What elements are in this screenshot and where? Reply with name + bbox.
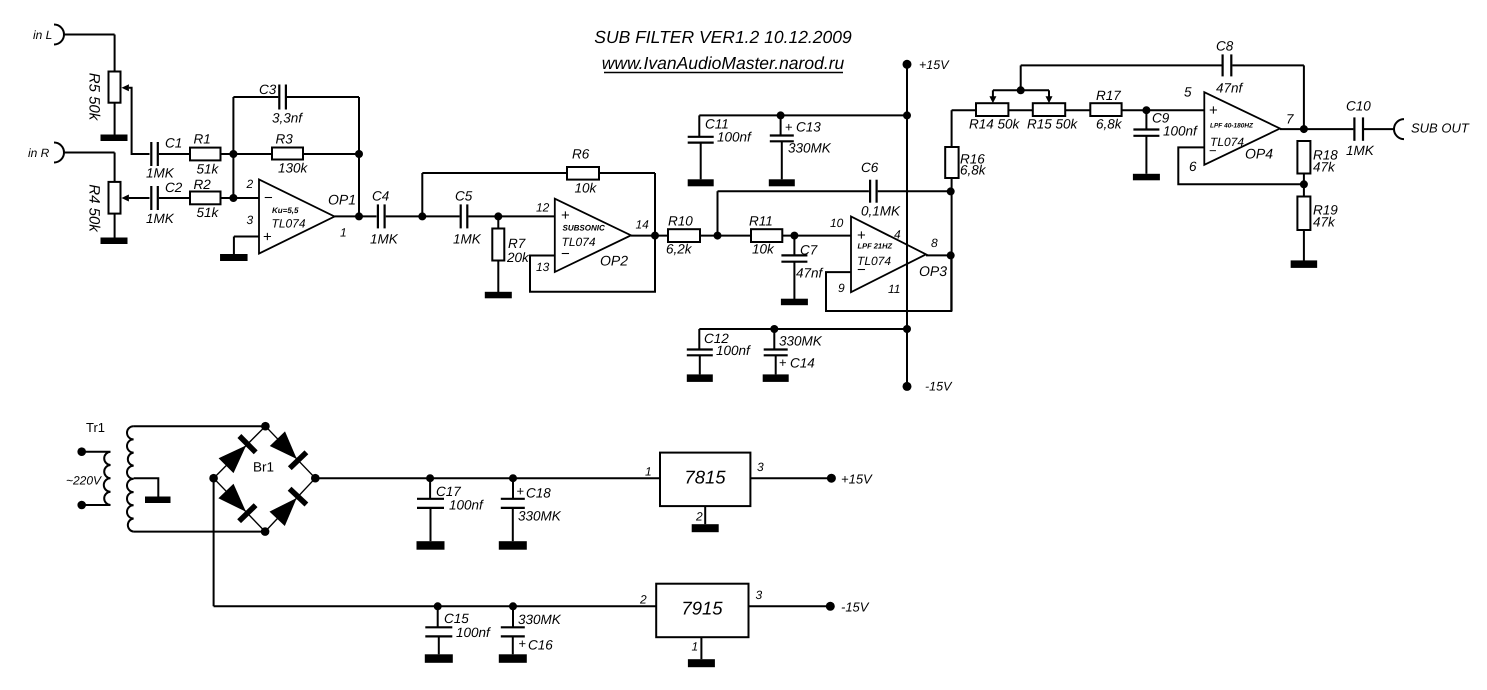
wire OP2 pin13 feedback loop [530, 236, 655, 292]
svg-text:1MK: 1MK [1346, 143, 1375, 158]
svg-text:OP3: OP3 [919, 263, 947, 279]
svg-text:C1: C1 [165, 136, 182, 151]
svg-text:330MK: 330MK [779, 334, 823, 349]
wire C18 to ground [512, 508, 514, 541]
capacitor C9 100nf [1133, 110, 1198, 138]
ground [101, 238, 128, 245]
svg-text:4: 4 [894, 228, 901, 242]
capacitor C2 1MK [146, 180, 183, 226]
wire C6 to R16 node [878, 190, 951, 192]
svg-text:3: 3 [756, 588, 763, 602]
wire R6 to OP2 out [599, 173, 655, 236]
wire C7 to ground [793, 262, 795, 299]
wire top cap rail [699, 114, 907, 116]
wire C15 to ground [438, 636, 440, 654]
svg-text:−: − [1209, 143, 1217, 158]
resistor R10 6,2k [666, 214, 700, 257]
ground [1133, 174, 1160, 181]
node C16 junction [509, 602, 517, 610]
wire C8 to OP4 output [1232, 65, 1304, 129]
svg-text:100nf: 100nf [456, 625, 491, 640]
regulator 7815 [645, 453, 764, 524]
wire R19 to ground [1303, 230, 1305, 261]
svg-text:+: + [779, 355, 787, 370]
node R1 out junction [229, 150, 237, 158]
wire OP2 output [631, 235, 668, 237]
svg-text:7815: 7815 [684, 467, 726, 488]
bridge rectifier Br1 [209, 422, 319, 536]
svg-text:R7: R7 [508, 236, 526, 251]
wire to C8 [1021, 64, 1222, 66]
svg-text:12: 12 [536, 201, 550, 215]
capacitor C17 100nf [417, 478, 484, 512]
resistor R16 6,8k [945, 110, 987, 178]
wire bridge plus to 7815 rail [315, 477, 660, 479]
node R18-R19 junction [1300, 180, 1308, 188]
op-amp OP3 TL074 [830, 216, 947, 296]
wire OP4 output to C10 [1280, 128, 1353, 130]
node C9 junction [1142, 106, 1150, 114]
svg-text:C7: C7 [800, 243, 818, 258]
resistor R6 10k [567, 147, 599, 196]
svg-text:7915: 7915 [681, 598, 723, 619]
svg-text:11: 11 [888, 282, 900, 296]
ground [145, 497, 171, 504]
input jack in L [33, 25, 64, 45]
svg-text:330MK: 330MK [788, 141, 832, 156]
potentiometer R5 50k [86, 72, 121, 122]
url text underlined [602, 53, 845, 73]
capacitor C10 1MK [1346, 99, 1375, 159]
wire secondary bottom to bridge [134, 531, 266, 533]
output jack SUB OUT [1394, 119, 1470, 139]
svg-text:R1: R1 [194, 132, 211, 147]
svg-text:330MK: 330MK [518, 509, 562, 524]
ground [781, 299, 808, 306]
wire OP4 pin6 feedback loop [1178, 147, 1304, 184]
svg-text:R10: R10 [668, 214, 693, 229]
svg-text:+: + [785, 120, 793, 135]
capacitor C13 330MK electrolytic [770, 115, 832, 155]
svg-text:6,2k: 6,2k [666, 242, 693, 257]
svg-text:9: 9 [838, 281, 845, 295]
svg-text:2: 2 [246, 177, 254, 191]
ground [101, 135, 128, 142]
node C17 junction [426, 474, 434, 482]
svg-text:1: 1 [692, 640, 699, 654]
wire junction up to C6 [718, 191, 869, 235]
wire R4 to ground [114, 214, 116, 238]
svg-text:3: 3 [247, 213, 254, 227]
wire bottom cap rail [699, 328, 907, 330]
capacitor C15 100nf [425, 606, 491, 640]
svg-text:C3: C3 [259, 82, 277, 97]
wire secondary top to bridge [134, 425, 266, 427]
svg-text:47nf: 47nf [796, 266, 824, 281]
node R10-R11 junction [714, 232, 722, 240]
svg-text:C16: C16 [528, 638, 553, 653]
svg-text:+: + [1209, 102, 1218, 119]
svg-text:10k: 10k [575, 181, 598, 196]
svg-text:47k: 47k [1313, 160, 1336, 175]
svg-text:~220V: ~220V [66, 474, 102, 488]
input jack in R [28, 143, 64, 163]
capacitor C5 1MK [453, 189, 482, 247]
capacitor C18 330MK electrolytic [501, 478, 562, 523]
node C18 junction [509, 474, 517, 482]
svg-text:100nf: 100nf [716, 343, 751, 358]
node OP2 output junction [651, 232, 659, 240]
svg-text:R2: R2 [194, 177, 212, 192]
ground [425, 654, 453, 663]
svg-text:LPF 40-180HZ: LPF 40-180HZ [1210, 123, 1254, 130]
svg-text:LPF 21HZ: LPF 21HZ [858, 242, 893, 251]
svg-text:330MK: 330MK [518, 612, 562, 627]
wire C5 to OP2 pin 12 [468, 215, 554, 217]
svg-text:2: 2 [695, 510, 703, 524]
svg-text:6,8k: 6,8k [1096, 117, 1123, 132]
wire 7915 pin1 to ground [700, 637, 702, 659]
wire C2 to R2 [159, 197, 190, 199]
wire C12 to ground [699, 355, 701, 374]
svg-text:R6: R6 [572, 147, 590, 162]
svg-text:47nf: 47nf [1216, 81, 1244, 96]
capacitor C8 47nf [1216, 39, 1244, 96]
svg-text:-15V: -15V [841, 600, 870, 615]
ground [688, 179, 714, 186]
svg-text:10: 10 [830, 216, 844, 230]
resistor R17 6,8k [1090, 88, 1122, 132]
wire C4 to C5 [386, 215, 460, 217]
svg-text:1MK: 1MK [146, 211, 175, 226]
op-amp OP1 TL074 [246, 177, 357, 254]
node R11-C7 junction [790, 232, 798, 240]
svg-text:in L: in L [33, 28, 52, 42]
ground [687, 374, 713, 382]
svg-text:8: 8 [931, 236, 938, 250]
wire bridge minus to 7915 rail [214, 478, 657, 606]
capacitor C1 1MK [146, 136, 182, 181]
svg-text:C5: C5 [455, 189, 473, 204]
resistor R1 51k [190, 132, 221, 177]
svg-text:OP4: OP4 [1245, 146, 1273, 162]
regulator 7915 [639, 584, 763, 654]
wire +-15V rail vertical [906, 64, 908, 386]
wire C10 to output jack [1364, 128, 1394, 130]
svg-text:1: 1 [340, 226, 347, 240]
wire C14 to ground [775, 355, 777, 374]
wire C3 top [233, 96, 359, 98]
svg-text:C14: C14 [790, 356, 815, 371]
wire center tap [134, 478, 159, 496]
svg-text:0,1MK: 0,1MK [861, 204, 901, 219]
node C15 junction [434, 602, 442, 610]
node R3 right junction [355, 150, 363, 158]
svg-text:OP2: OP2 [600, 253, 628, 269]
wire R5 wiper to C1 [122, 84, 150, 154]
svg-text:TL074: TL074 [857, 254, 891, 268]
svg-text:100nf: 100nf [449, 498, 484, 513]
svg-text:R4 50k: R4 50k [86, 184, 103, 233]
node R2 out junction [229, 194, 237, 202]
wire in L to R5 [64, 35, 115, 72]
svg-text:6: 6 [1189, 159, 1197, 174]
node C13 junction [777, 111, 785, 119]
svg-text:3: 3 [757, 460, 764, 474]
node rail junction [903, 111, 911, 119]
wire 7815 pin2 to ground [704, 506, 706, 524]
node C14 junction [770, 325, 778, 333]
resistor R3 130k [272, 132, 309, 176]
potentiometer R4 50k [86, 182, 121, 233]
svg-text:SUBSONIC: SUBSONIC [563, 224, 605, 233]
capacitor C7 47nf [781, 236, 823, 281]
wire feedback vertical right [358, 97, 360, 216]
capacitor C3 3,3nf [259, 82, 303, 126]
svg-text:+: + [517, 484, 525, 499]
capacitor C16 330MK electrolytic [501, 606, 562, 652]
node rail junction [903, 325, 911, 333]
wire C11 to ground [700, 143, 702, 180]
svg-text:1: 1 [645, 465, 652, 479]
svg-text:20k: 20k [506, 250, 530, 265]
ground [220, 254, 248, 261]
wire R1 to R3 node [221, 153, 273, 155]
svg-text:R15 50k: R15 50k [1027, 117, 1079, 132]
svg-text:C10: C10 [1346, 99, 1371, 114]
wire feedback vertical left [232, 97, 234, 198]
svg-text:-15V: -15V [925, 380, 953, 394]
capacitor C11 100nf [688, 115, 752, 144]
svg-text:51k: 51k [197, 162, 220, 177]
wire R15 to R17 [1065, 109, 1090, 111]
svg-text:SUB OUT: SUB OUT [1411, 121, 1470, 136]
wire R16 down to OP3 loop [951, 178, 953, 311]
svg-text:14: 14 [636, 218, 650, 232]
svg-text:47k: 47k [1313, 215, 1336, 230]
svg-text:R5 50k: R5 50k [86, 73, 103, 122]
svg-text:C18: C18 [526, 486, 551, 501]
wire R10 to R11 [700, 235, 751, 237]
node C6 junction [947, 187, 955, 195]
transformer Tr1 [66, 420, 134, 532]
resistor R11 10k [749, 214, 782, 257]
resistor R18 47k [1297, 141, 1338, 175]
svg-text:51k: 51k [197, 205, 220, 220]
wire R11 to OP3 pin 10 [782, 235, 851, 237]
wire R17 to OP4 pin 5 [1122, 109, 1205, 111]
ground [769, 179, 795, 186]
ground [763, 374, 789, 382]
wire OP3 output [926, 254, 951, 256]
svg-text:Br1: Br1 [253, 460, 274, 475]
wire R5 to ground [114, 103, 116, 135]
wire C16 to ground [512, 636, 514, 654]
wire in R to R4 [64, 153, 115, 182]
wire OP1 pin 3 to ground [234, 237, 259, 255]
svg-text:in R: in R [28, 146, 50, 160]
op-amp OP2 TL074 [536, 199, 649, 274]
ground [485, 292, 512, 299]
svg-text:C13: C13 [796, 120, 821, 135]
svg-text:Ku=5,5: Ku=5,5 [272, 206, 299, 215]
svg-text:2: 2 [639, 593, 647, 607]
title text [594, 27, 852, 47]
ground [499, 654, 527, 663]
wire OP1 output [335, 215, 377, 217]
resistor R7 20k [492, 216, 530, 265]
node OP1 output junction [355, 212, 363, 220]
wire R4 wiper to C2 [122, 195, 150, 202]
wire to R6 [422, 173, 567, 216]
svg-text:R14 50k: R14 50k [969, 117, 1021, 132]
svg-text:R3: R3 [276, 132, 294, 147]
ground [417, 541, 445, 550]
svg-text:C8: C8 [1216, 39, 1234, 54]
wire wiper net [993, 65, 1049, 90]
svg-text:C4: C4 [372, 189, 389, 204]
wire to R14 [952, 109, 976, 111]
svg-text:+: + [561, 207, 570, 224]
node OP3 output junction [947, 251, 955, 259]
potentiometer R14 50k [969, 90, 1021, 131]
capacitor C4 1MK [370, 189, 399, 247]
svg-text:TL074: TL074 [562, 235, 596, 249]
capacitor C6 0,1MK [861, 160, 901, 219]
potentiometer R15 50k [1027, 90, 1079, 131]
wire R3 to right vertical [303, 153, 359, 155]
op-amp OP4 TL074 [1184, 85, 1294, 175]
svg-text:100nf: 100nf [1163, 124, 1198, 139]
node C5 out junction [494, 212, 502, 220]
svg-text:SUB FILTER VER1.2 10.12.2009: SUB FILTER VER1.2 10.12.2009 [594, 27, 852, 47]
svg-text:5: 5 [1184, 85, 1192, 100]
svg-text:TL074: TL074 [272, 217, 306, 231]
svg-text:www.IvanAudioMaster.narod.ru: www.IvanAudioMaster.narod.ru [602, 53, 845, 73]
node C4-C5 junction [418, 212, 426, 220]
capacitor C12 100nf [687, 329, 751, 358]
wire C13 to ground [781, 141, 783, 179]
svg-text:R17: R17 [1096, 88, 1121, 103]
node -15V output terminal [826, 600, 870, 615]
svg-text:C15: C15 [444, 611, 469, 626]
node OP4 output junction [1300, 125, 1308, 133]
wire 7815 out [750, 477, 831, 479]
svg-text:1MK: 1MK [370, 232, 399, 247]
svg-text:+: + [263, 229, 272, 246]
ground [1291, 260, 1318, 268]
svg-text:130k: 130k [278, 161, 309, 176]
wire R7 to ground [497, 261, 499, 293]
resistor R2 51k [190, 177, 221, 220]
svg-text:6,8k: 6,8k [960, 163, 987, 178]
svg-text:C6: C6 [861, 160, 879, 175]
wire 7915 out [749, 605, 831, 607]
svg-text:R11: R11 [749, 214, 773, 229]
wire C17 to ground [430, 508, 432, 541]
ground [692, 524, 719, 532]
svg-text:10k: 10k [752, 242, 775, 257]
svg-text:7: 7 [1286, 112, 1294, 127]
svg-text:−: − [264, 190, 273, 207]
wire C9 to ground [1145, 136, 1147, 174]
svg-text:C2: C2 [165, 180, 183, 195]
ground [688, 659, 715, 667]
wire OP3 pin9 feedback loop [826, 256, 951, 311]
ground [499, 541, 527, 550]
svg-text:+15V: +15V [919, 58, 950, 72]
svg-text:100nf: 100nf [717, 130, 752, 145]
svg-text:1MK: 1MK [453, 232, 482, 247]
node wiper junction [1017, 86, 1025, 94]
svg-text:13: 13 [536, 260, 550, 274]
svg-text:Tr1: Tr1 [86, 420, 105, 435]
node +15V output terminal [827, 472, 873, 487]
svg-text:+: + [519, 636, 527, 651]
svg-text:3,3nf: 3,3nf [272, 111, 303, 126]
wire C1 to R1 [159, 153, 190, 155]
node -15V terminal [903, 380, 954, 394]
node +15V terminal [903, 58, 951, 72]
svg-text:OP1: OP1 [328, 192, 356, 208]
svg-text:1MK: 1MK [146, 166, 175, 181]
wire R14 to R15 [1008, 109, 1032, 111]
svg-text:+15V: +15V [841, 472, 873, 487]
resistor R19 47k [1297, 174, 1338, 231]
capacitor C14 330MK electrolytic [764, 329, 823, 371]
wire R2 to OP1 pin 2 [221, 197, 260, 199]
